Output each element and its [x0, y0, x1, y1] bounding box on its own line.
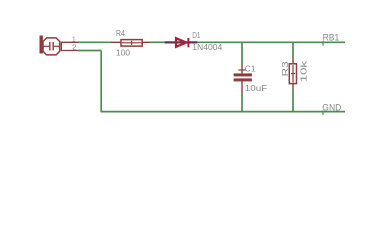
svg-text:100: 100	[116, 47, 130, 57]
wire C1 to ground bus	[241, 93, 243, 112]
resistor R3 origin cross	[291, 73, 295, 75]
svg-text:RB1: RB1	[323, 33, 340, 43]
capacitor C1 top plate	[234, 73, 252, 76]
label GND origin cross	[322, 111, 324, 115]
resistor R4 left pin	[111, 41, 121, 43]
wire ground bus bottom	[101, 111, 346, 113]
microphone MIC capacitor plates	[49, 42, 51, 50]
microphone MIC body bar	[40, 36, 43, 54]
svg-text:C1: C1	[245, 63, 256, 73]
resistor R3 bottom pin	[292, 84, 294, 89]
diode D1 cathode bar	[187, 38, 189, 47]
svg-text:10uF: 10uF	[245, 83, 267, 93]
microphone MIC pin 2	[61, 50, 78, 52]
wire mic pin2 horizontal	[78, 50, 101, 52]
wire R3 to ground bus	[292, 88, 294, 111]
svg-text:R4: R4	[116, 28, 125, 38]
resistor R4 internal line	[122, 42, 141, 44]
microphone MIC pin bus	[60, 42, 62, 51]
wire top bus to R3	[292, 42, 294, 57]
resistor R4 origin cross	[131, 41, 133, 45]
resistor R4 body	[121, 40, 142, 47]
diode D1 lead through	[165, 41, 198, 43]
wire mic pin2 down	[100, 51, 102, 112]
resistor R4 right pin	[142, 41, 149, 43]
svg-text:1N4004: 1N4004	[192, 42, 222, 52]
svg-text:10k: 10k	[299, 60, 309, 82]
microphone MIC pin 1	[61, 41, 78, 43]
wire mic pin1 to R4	[78, 41, 112, 43]
svg-text:R3: R3	[280, 61, 290, 76]
capacitor C1 top pin	[241, 65, 243, 74]
wire D1 to RB1	[197, 41, 345, 43]
microphone MIC internal lead right	[54, 45, 59, 47]
wire top bus to C1	[241, 42, 243, 65]
resistor R3 internal line	[292, 65, 294, 83]
label RB1 origin cross	[322, 41, 324, 45]
capacitor C1 plus mark	[238, 69, 246, 71]
svg-text:D1: D1	[192, 30, 200, 40]
resistor R3 body	[289, 64, 296, 84]
svg-text:2: 2	[72, 43, 77, 52]
wire R4 to D1	[150, 41, 166, 43]
resistor R3 top pin	[292, 57, 294, 63]
capacitor C1 bottom plate	[234, 78, 252, 81]
microphone MIC internal lead left	[44, 45, 50, 47]
microphone MIC circle	[43, 38, 60, 55]
capacitor C1 bottom pin	[241, 81, 243, 93]
diode D1 triangle	[176, 38, 186, 47]
svg-text:GND: GND	[322, 103, 341, 113]
